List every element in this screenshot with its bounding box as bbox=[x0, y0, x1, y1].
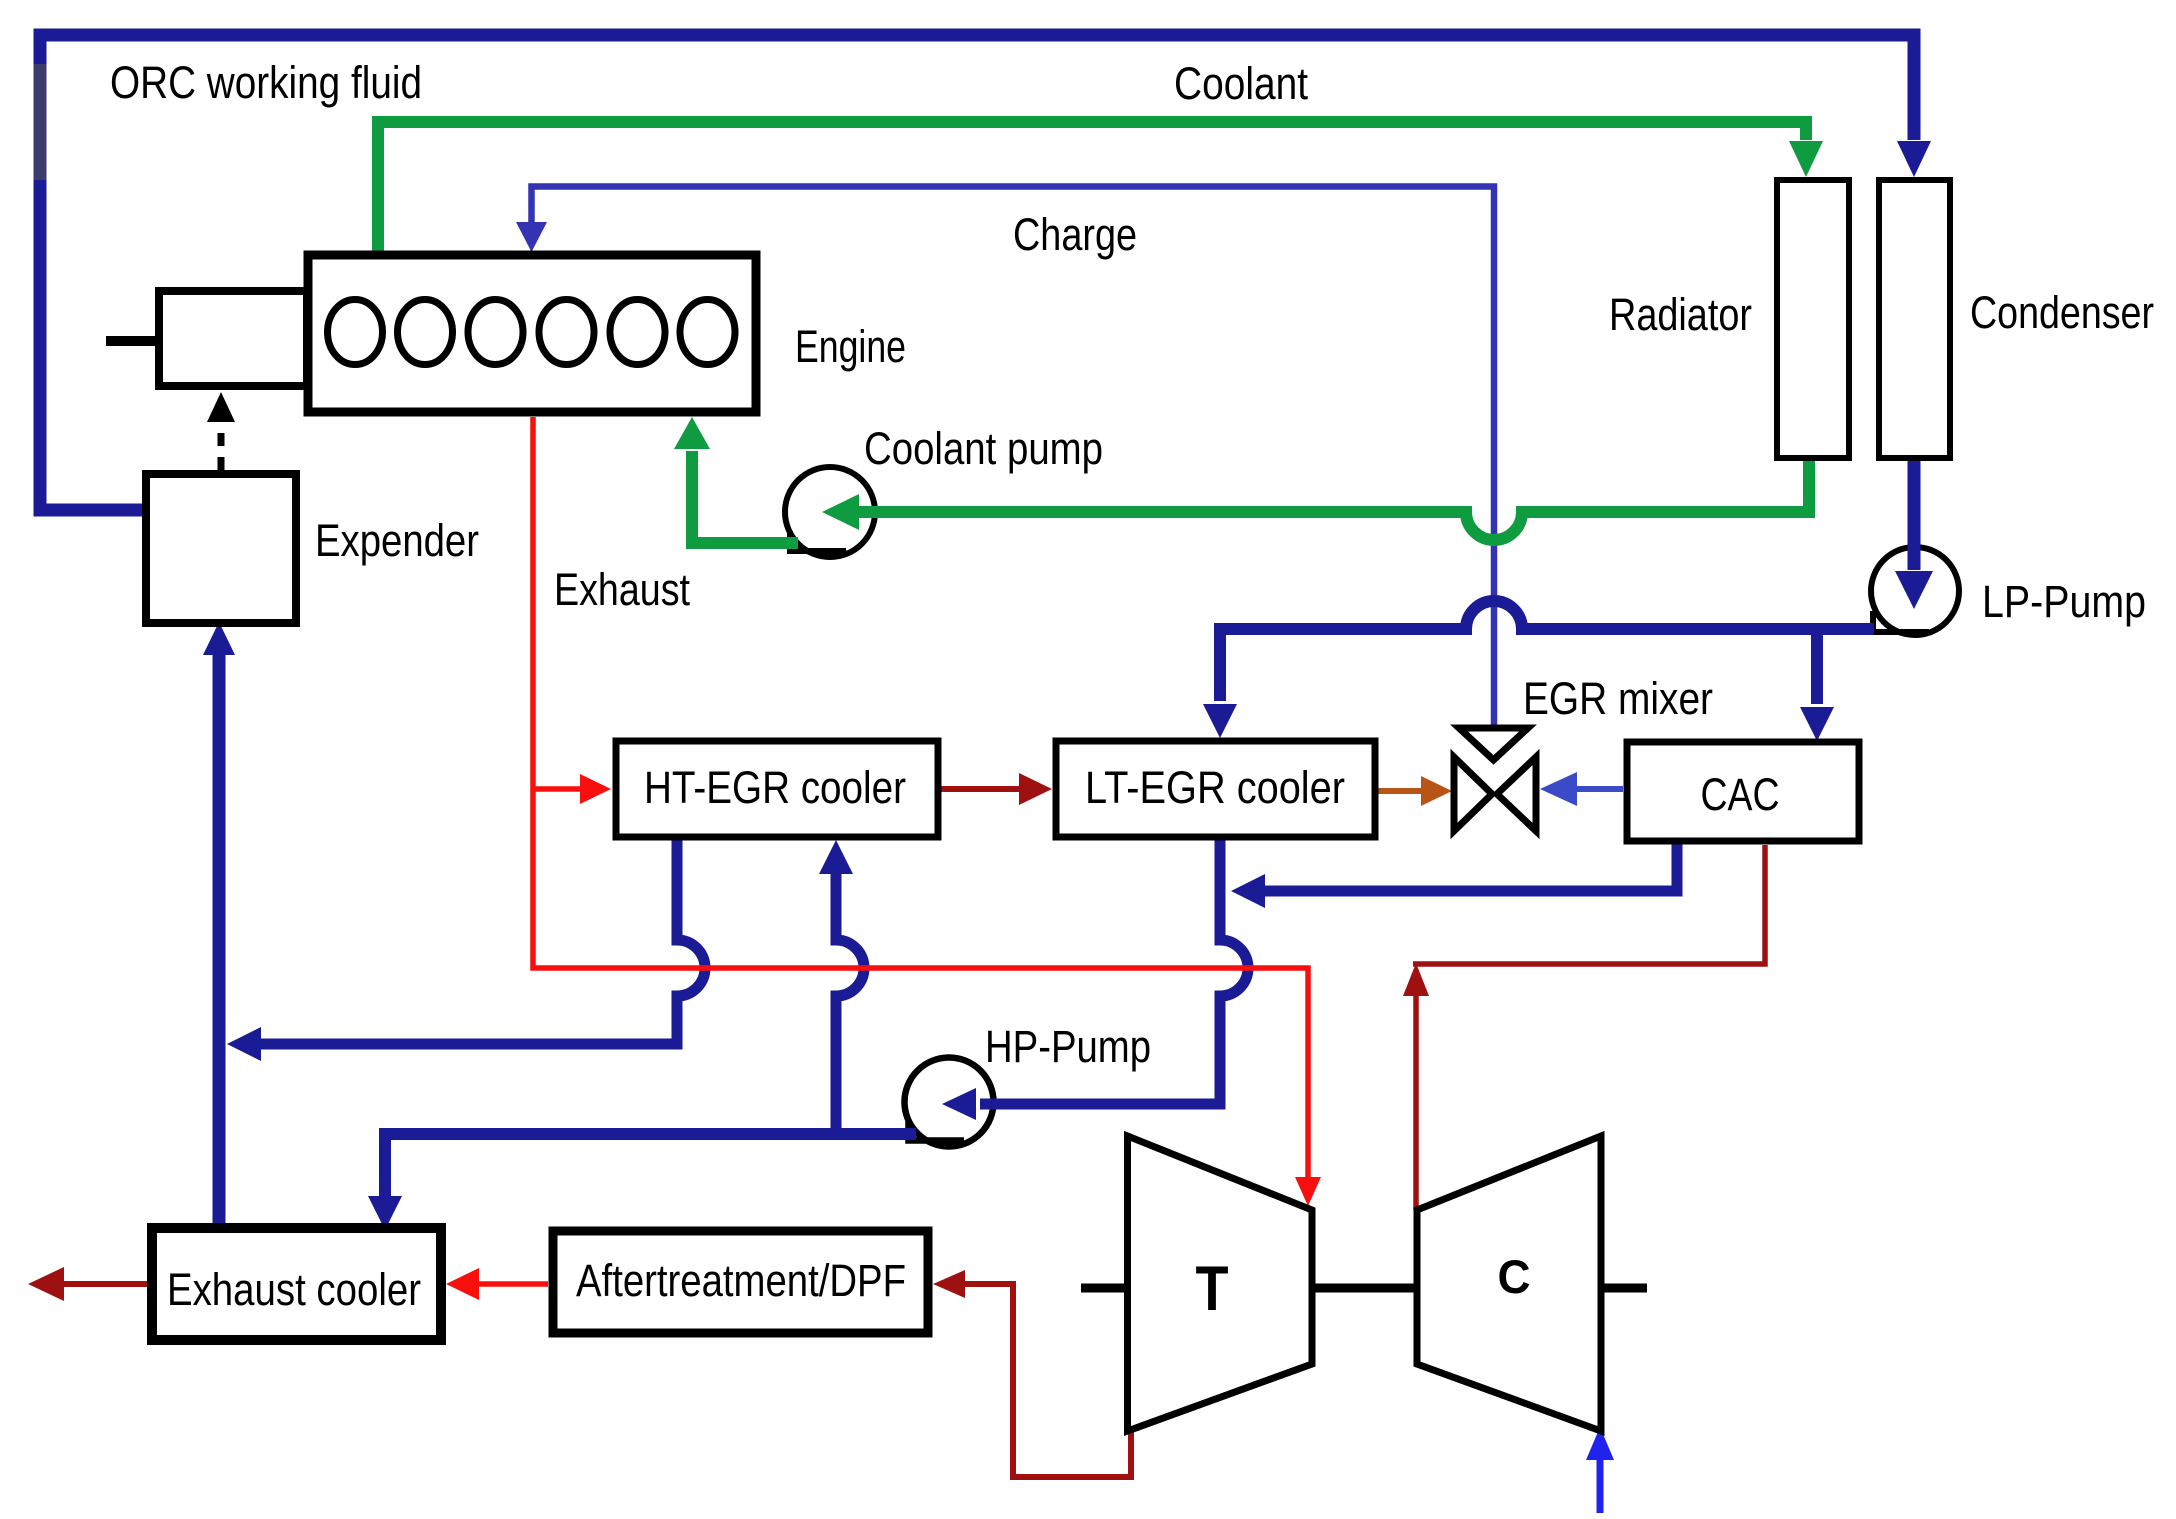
HT-EGR cooler box bbox=[616, 741, 938, 837]
label C compressor bbox=[1498, 1250, 1531, 1303]
label Condenser bbox=[1970, 287, 2154, 338]
label HP-Pump bbox=[985, 1021, 1151, 1072]
arrow into EGR mixer right bbox=[1540, 772, 1577, 806]
condenser bbox=[1879, 180, 1950, 458]
flywheel housing box bbox=[159, 291, 307, 386]
label EGR mixer bbox=[1523, 673, 1713, 724]
wire exhaust engine to turbine (red) bbox=[533, 417, 1308, 1178]
CAC box bbox=[1627, 742, 1859, 841]
arrow into exhaust cooler top bbox=[368, 1196, 402, 1230]
wire turbine outlet to aftertreatment (dark red) bbox=[963, 1284, 1131, 1477]
arrow into HT-EGR cooler left bbox=[580, 774, 611, 804]
svg-text:T: T bbox=[1196, 1254, 1229, 1324]
cylinder 5 bbox=[610, 300, 665, 365]
arrow into CAC top bbox=[1800, 707, 1834, 741]
wire ORC working fluid main loop (navy) bbox=[40, 35, 1914, 510]
arrow into condenser top bbox=[1897, 141, 1931, 177]
svg-text:Engine: Engine bbox=[795, 321, 906, 372]
arrow up into HT-EGR cooler bottom bbox=[819, 840, 853, 874]
crankshaft stub bbox=[106, 336, 159, 346]
arrow into riser (left) bbox=[227, 1027, 261, 1061]
label ORC working fluid bbox=[110, 57, 422, 108]
arrow into EGR mixer left bbox=[1421, 776, 1452, 806]
arrow shaft coupling up bbox=[207, 392, 235, 422]
wire branch to CAC top (navy) bbox=[1811, 629, 1823, 704]
cylinder 1 bbox=[328, 300, 383, 365]
arrow into exhaust cooler right bbox=[446, 1268, 479, 1300]
wire aftertreatment to exhaust cooler (red) bbox=[478, 1281, 548, 1287]
arrow direction marker up bbox=[1403, 963, 1429, 996]
label CAC bbox=[1701, 769, 1780, 820]
wire exhaust branch to HT-EGR cooler (red) bbox=[533, 786, 582, 792]
arrow into compressor bottom bbox=[1586, 1427, 1614, 1460]
svg-text:ORC working fluid: ORC working fluid bbox=[110, 57, 422, 108]
svg-text:LT-EGR cooler: LT-EGR cooler bbox=[1085, 762, 1345, 813]
svg-text:HP-Pump: HP-Pump bbox=[985, 1021, 1151, 1072]
arrow into engine bottom bbox=[674, 417, 710, 449]
turbine T bbox=[1128, 1136, 1313, 1431]
label T turbine bbox=[1196, 1254, 1229, 1324]
arrow into expander bottom bbox=[203, 622, 235, 655]
arrow into LT-EGR cooler left bbox=[1019, 773, 1052, 805]
svg-text:C: C bbox=[1498, 1250, 1531, 1303]
engine block bbox=[308, 255, 756, 412]
wire exhaust cooler tailpipe out (dark red) bbox=[63, 1281, 147, 1287]
cylinder 2 bbox=[398, 300, 453, 365]
arrow into radiator top bbox=[1789, 141, 1823, 177]
wire coolant supply engine to radiator (green) bbox=[378, 122, 1806, 255]
svg-text:Condenser: Condenser bbox=[1970, 287, 2154, 338]
exhaust cooler box bbox=[152, 1228, 441, 1340]
arrow into coolant pump bbox=[822, 494, 859, 530]
wire coolant return radiator to coolant pump (green) bbox=[858, 458, 1809, 540]
EGR mixer valve bbox=[1454, 728, 1536, 831]
svg-text:Radiator: Radiator bbox=[1609, 289, 1752, 340]
label Charge bbox=[1013, 209, 1137, 260]
wire shaded segment of ORC riser bbox=[34, 64, 47, 180]
HP-pump body bbox=[905, 1058, 994, 1147]
wire coolant pump outlet to engine (green) bbox=[692, 451, 798, 543]
label LP-Pump bbox=[1982, 576, 2146, 627]
arrow into LT-EGR downcomer bbox=[1231, 874, 1265, 908]
wire condenser outlet to LP-pump (navy) bbox=[1908, 458, 1921, 570]
arrow tailpipe exit left bbox=[28, 1267, 64, 1301]
svg-text:Charge: Charge bbox=[1013, 209, 1137, 260]
arrow into LP-pump bbox=[1895, 571, 1933, 609]
wire HP-pump outlet to exhaust cooler (navy) bbox=[385, 1134, 916, 1197]
wire LT-EGR to EGR mixer (brown) bbox=[1378, 788, 1423, 794]
cylinder 6 bbox=[680, 300, 735, 365]
wire HT-EGR to LT-EGR (dark red) bbox=[941, 786, 1020, 792]
svg-text:CAC: CAC bbox=[1701, 769, 1780, 820]
arrow into turbine T bbox=[1295, 1177, 1321, 1206]
expander box bbox=[146, 474, 296, 623]
wire compressor air intake (bright blue) bbox=[1597, 1458, 1604, 1513]
svg-text:HT-EGR cooler: HT-EGR cooler bbox=[644, 762, 906, 813]
wire riser exhaust cooler to expander (navy) bbox=[213, 652, 226, 1231]
turbo shaft bbox=[1081, 1284, 1647, 1293]
svg-text:Exhaust: Exhaust bbox=[554, 564, 690, 615]
label LT-EGR cooler bbox=[1085, 762, 1345, 813]
svg-text:Coolant pump: Coolant pump bbox=[864, 423, 1103, 474]
arrow into LT-EGR cooler top bbox=[1203, 704, 1237, 738]
svg-text:LP-Pump: LP-Pump bbox=[1982, 576, 2146, 627]
arrow into engine top bbox=[516, 222, 547, 252]
wire CAC outlet to LT-EGR line (navy) bbox=[1264, 841, 1677, 891]
wire compressor outlet to CAC (dark red) bbox=[1413, 845, 1765, 1210]
label Exhaust cooler bbox=[167, 1264, 421, 1315]
wire branch to HT-EGR cooler bottom (navy) bbox=[836, 872, 864, 1134]
wire charge air EGR mixer to engine (medium blue) bbox=[532, 187, 1495, 728]
label Engine bbox=[795, 321, 906, 372]
label Radiator bbox=[1609, 289, 1752, 340]
LT-EGR cooler box bbox=[1056, 741, 1375, 837]
dashed shaft expander to engine (black) bbox=[218, 424, 225, 470]
wire HT-EGR cooler outlet to riser (navy) bbox=[260, 838, 705, 1044]
arrow into aftertreatment right bbox=[933, 1270, 965, 1298]
svg-text:Exhaust cooler: Exhaust cooler bbox=[167, 1264, 421, 1315]
radiator bbox=[1777, 180, 1849, 458]
svg-text:Aftertreatment/DPF: Aftertreatment/DPF bbox=[576, 1255, 906, 1306]
wire LP-pump outlet manifold (navy) bbox=[1220, 601, 1874, 701]
wire LT-EGR cooler outlet to HP-pump (navy) bbox=[980, 838, 1248, 1104]
label Exhaust bbox=[554, 564, 690, 615]
label Expender bbox=[315, 515, 479, 566]
arrow into HP-pump bbox=[942, 1088, 976, 1120]
svg-text:Expender: Expender bbox=[315, 515, 479, 566]
label Coolant pump bbox=[864, 423, 1103, 474]
wire CAC to EGR mixer (medium blue) bbox=[1576, 786, 1623, 792]
label Aftertreatment/DPF bbox=[576, 1255, 906, 1306]
svg-text:EGR mixer: EGR mixer bbox=[1523, 673, 1713, 724]
aftertreatment box bbox=[553, 1231, 928, 1333]
label Coolant bbox=[1174, 58, 1308, 109]
svg-text:Coolant: Coolant bbox=[1174, 58, 1308, 109]
label HT-EGR cooler bbox=[644, 762, 906, 813]
compressor C bbox=[1417, 1136, 1601, 1431]
LP-pump body bbox=[1871, 547, 1959, 635]
cylinder 3 bbox=[468, 300, 523, 365]
cylinder 4 bbox=[539, 300, 594, 365]
coolant pump body bbox=[785, 467, 875, 557]
